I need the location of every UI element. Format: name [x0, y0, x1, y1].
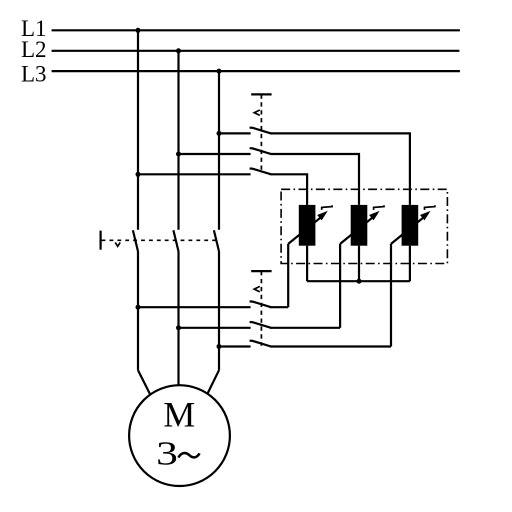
wire K2 pole1 to R3 top: [270, 133, 410, 205]
contact K1 pole 3 blade: [214, 230, 219, 251]
contactor K2 linkage dashed: [260, 94, 262, 173]
wire R2 bottom: [358, 246, 360, 282]
contact K2 pole 3 blade: [250, 169, 271, 175]
wire phase C vertical upper: [218, 71, 220, 230]
node lower C: [217, 344, 222, 349]
contactor K3 linkage dashed: [260, 271, 262, 346]
contact K1 pole 1 blade: [133, 230, 138, 251]
svg-text:M: M: [163, 395, 195, 435]
wire R3 wiper down: [390, 244, 392, 347]
wire phase C vertical lower: [218, 251, 220, 370]
enclosure resistor bank box: [281, 189, 447, 263]
node L3 junction: [217, 69, 222, 74]
contact K2 pole 2 blade: [250, 148, 271, 154]
resistor R2 body: [351, 205, 368, 246]
contactor K1 linkage chevron: [115, 242, 120, 246]
wire R1 wiper down: [287, 244, 289, 307]
resistor R2 preset bar: [374, 205, 384, 210]
wire K2 pole3 to R1 top: [270, 174, 307, 205]
wire bus L2: [52, 50, 460, 52]
contact K1 pole 2 blade: [173, 230, 178, 251]
contactor K2 actuator bar: [251, 93, 271, 95]
contact K3 pole 1 blade: [250, 301, 271, 307]
wire K3 pole2 to R2 wiper: [270, 327, 340, 329]
wire bus L3: [52, 70, 460, 72]
wire phase A vertical upper: [137, 30, 139, 230]
wire K3 pole3 to R3 wiper: [270, 345, 391, 347]
resistor R1 preset bar: [322, 205, 332, 210]
resistor R2 wiper arrow: [340, 216, 374, 244]
contactor K3 linkage chevron: [254, 286, 260, 291]
wire tap B to K2: [179, 153, 251, 155]
wire phase B vertical lower: [177, 251, 179, 385]
node tap B: [176, 152, 181, 157]
contactor K1 linkage dashed: [102, 239, 217, 241]
contactor K3 actuator bar: [251, 270, 271, 272]
resistor R3 body: [402, 205, 419, 246]
wire K3 pole1 to R1 wiper: [270, 306, 288, 308]
node L1 junction: [136, 28, 141, 33]
resistor R1 wiper arrow: [288, 216, 322, 244]
motor M1 circle: [129, 385, 230, 486]
svg-text:3: 3: [156, 435, 178, 472]
contactor K1 actuator bar: [99, 231, 101, 250]
wire motor lead C angled: [208, 370, 220, 393]
wire star link: [307, 280, 410, 282]
wire lower A to K3: [138, 306, 251, 308]
wire tap C to K2: [219, 132, 251, 134]
wire R1 bottom: [306, 246, 308, 282]
wire lower C to K3: [219, 345, 251, 347]
contactor K2 linkage chevron: [254, 110, 260, 115]
svg-text:L3: L3: [21, 62, 47, 87]
wire lower B to K3: [179, 327, 251, 329]
contact K2 pole 1 blade: [250, 128, 271, 134]
motor M1 label tilde: [178, 453, 199, 458]
wire motor lead A angled: [138, 370, 150, 395]
contact K3 pole 2 blade: [250, 322, 271, 328]
wire tap A to K2: [138, 173, 251, 175]
wire R2 wiper down: [339, 244, 341, 328]
wire K2 pole2 to R2 top: [270, 154, 359, 205]
resistor R3 preset bar: [425, 205, 435, 210]
resistor R3 wiper arrow: [391, 216, 425, 244]
motor M1 label 3: [156, 435, 178, 472]
node lower B: [176, 325, 181, 330]
node star point: [357, 279, 362, 284]
node L2 junction: [176, 48, 181, 53]
svg-text:L2: L2: [21, 37, 47, 62]
contact K3 pole 3 blade: [250, 341, 271, 347]
node tap A: [136, 172, 141, 177]
wire bus L1: [52, 29, 460, 31]
resistor R1 body: [299, 205, 316, 246]
wire phase B vertical upper: [177, 51, 179, 230]
wire phase A vertical lower: [137, 251, 139, 370]
node tap C: [217, 131, 222, 136]
node lower A: [136, 305, 141, 310]
wire R3 bottom: [409, 246, 411, 282]
